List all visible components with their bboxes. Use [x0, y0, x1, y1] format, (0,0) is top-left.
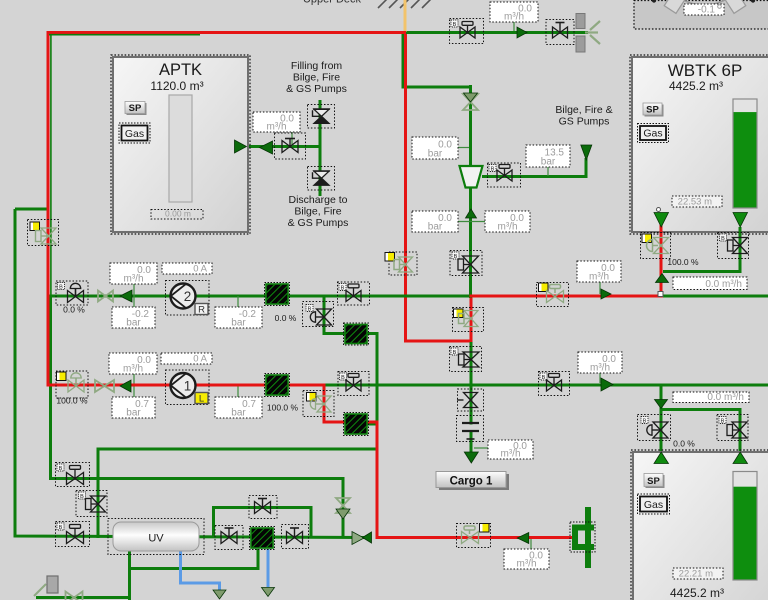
svg-text:-0.1: -0.1: [698, 5, 716, 16]
svg-text:B: B: [308, 306, 312, 312]
svg-text:4425.2 m³: 4425.2 m³: [669, 79, 723, 93]
svg-text:& GS Pumps: & GS Pumps: [286, 83, 347, 95]
svg-text:L: L: [199, 394, 204, 405]
svg-text:0.0 m³/h: 0.0 m³/h: [705, 279, 742, 290]
svg-text:Bilge, Fire: Bilge, Fire: [294, 206, 341, 218]
svg-text:22.53 m: 22.53 m: [678, 197, 712, 208]
svg-text:B: B: [542, 375, 546, 381]
svg-text:B: B: [721, 418, 725, 424]
svg-text:B: B: [80, 494, 84, 500]
svg-text:B: B: [59, 525, 63, 531]
svg-text:m³/h: m³/h: [517, 559, 537, 570]
svg-text:Discharge to: Discharge to: [289, 194, 348, 206]
svg-text:SP: SP: [647, 476, 660, 487]
svg-text:22.21 m: 22.21 m: [679, 569, 713, 580]
svg-text:B: B: [341, 285, 345, 291]
svg-text:1120.0 m³: 1120.0 m³: [150, 79, 203, 93]
svg-text:& GS Pumps: & GS Pumps: [288, 217, 349, 229]
svg-text:1: 1: [184, 379, 192, 394]
svg-text:0.00 m: 0.00 m: [165, 209, 191, 219]
svg-text:B: B: [454, 254, 458, 260]
svg-text:bar: bar: [231, 318, 246, 329]
svg-text:SP: SP: [129, 103, 142, 114]
svg-text:bar: bar: [231, 408, 246, 419]
svg-text:Cargo 1: Cargo 1: [450, 476, 493, 488]
svg-text:4425.2 m³: 4425.2 m³: [670, 586, 724, 600]
svg-text:Gas: Gas: [125, 128, 144, 140]
svg-text:UV: UV: [148, 533, 164, 545]
svg-text:bar: bar: [428, 149, 443, 160]
svg-text:0.0 %: 0.0 %: [673, 439, 695, 449]
svg-text:0.0 %: 0.0 %: [275, 313, 297, 323]
svg-text:bar: bar: [126, 408, 141, 419]
svg-text:0.0 m³/h: 0.0 m³/h: [707, 392, 744, 403]
svg-text:Bilge, Fire: Bilge, Fire: [293, 72, 340, 84]
svg-text:B: B: [341, 375, 345, 381]
svg-text:m³/h: m³/h: [267, 122, 287, 133]
svg-text:0.0 %: 0.0 %: [63, 305, 85, 315]
svg-text:Gas: Gas: [643, 128, 662, 140]
svg-text:Upper Deck: Upper Deck: [303, 0, 362, 6]
svg-text:R: R: [198, 305, 205, 316]
svg-text:SP: SP: [646, 105, 659, 116]
svg-text:Gas: Gas: [644, 499, 663, 511]
svg-text:m³/h: m³/h: [123, 364, 143, 375]
svg-text:m³/h: m³/h: [590, 363, 610, 374]
svg-text:bar: bar: [428, 222, 443, 233]
svg-text:B: B: [59, 466, 63, 472]
svg-text:m³/h: m³/h: [498, 222, 518, 233]
svg-text:0 A: 0 A: [193, 354, 207, 365]
svg-text:Bilge, Fire &: Bilge, Fire &: [555, 104, 612, 116]
svg-text:2: 2: [184, 289, 192, 304]
svg-text:B: B: [453, 22, 457, 28]
svg-text:100.0 %: 100.0 %: [667, 257, 699, 267]
svg-text:B: B: [453, 350, 457, 356]
svg-text:B: B: [59, 284, 63, 290]
svg-text:B: B: [721, 236, 725, 242]
svg-text:B: B: [643, 418, 647, 424]
svg-text:bar: bar: [541, 157, 556, 168]
svg-text:Filling from: Filling from: [291, 60, 343, 72]
svg-text:GS Pumps: GS Pumps: [559, 116, 610, 128]
svg-text:APTK: APTK: [159, 61, 202, 79]
svg-text:100.0 %: 100.0 %: [267, 403, 299, 413]
svg-text:0 A: 0 A: [193, 264, 207, 275]
svg-text:bar: bar: [126, 318, 141, 329]
svg-text:B: B: [491, 166, 495, 172]
svg-text:m³/h: m³/h: [589, 272, 609, 283]
svg-text:WBTK 6P: WBTK 6P: [668, 61, 743, 80]
svg-text:100.0 %: 100.0 %: [56, 396, 88, 406]
svg-text:m³/h: m³/h: [124, 274, 144, 285]
svg-text:m³/h: m³/h: [501, 449, 521, 460]
svg-text:m³/h: m³/h: [504, 12, 524, 23]
